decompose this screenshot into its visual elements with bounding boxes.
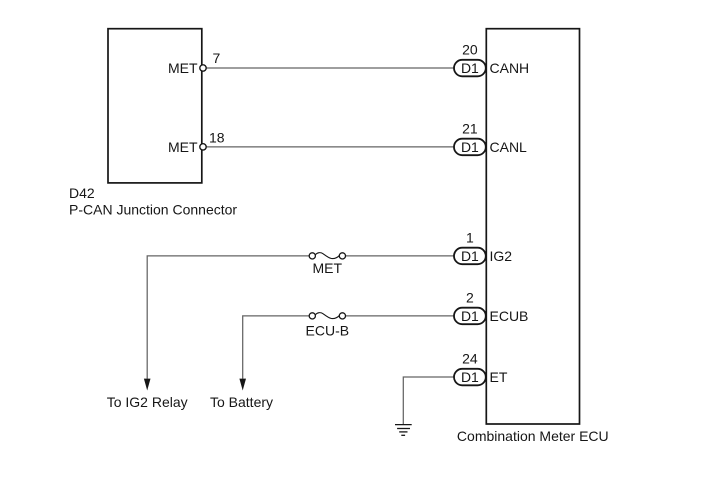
wire IG2 horizontal right of fuse	[345, 255, 454, 257]
svg-text:2: 2	[466, 290, 474, 306]
svg-text:To Battery: To Battery	[210, 394, 273, 410]
svg-text:20: 20	[462, 42, 478, 58]
fuse ECU-B	[309, 313, 345, 319]
wire ECUB left of fuse and down	[243, 316, 310, 379]
svg-text:MET: MET	[168, 139, 198, 155]
svg-text:7: 7	[213, 50, 221, 66]
svg-text:P-CAN Junction Connector: P-CAN Junction Connector	[69, 202, 237, 218]
svg-text:D1: D1	[461, 60, 479, 76]
arrow to IG2 relay	[144, 379, 151, 391]
ECU box (Combination Meter ECU)	[486, 29, 579, 424]
fuse MET	[309, 253, 345, 259]
svg-text:D1: D1	[461, 139, 479, 155]
oval terminal D1-2 ECUB	[454, 308, 486, 325]
wire CANL (pin 18 to D1-21)	[206, 146, 455, 148]
svg-text:D1: D1	[461, 248, 479, 264]
svg-text:Combination Meter ECU: Combination Meter ECU	[457, 428, 609, 444]
oval terminal D1-20 CANH	[454, 60, 486, 77]
svg-text:24: 24	[462, 351, 478, 367]
svg-text:D1: D1	[461, 369, 479, 385]
svg-text:18: 18	[209, 129, 225, 145]
svg-text:To IG2 Relay: To IG2 Relay	[107, 394, 188, 410]
arrow to Battery	[239, 379, 246, 391]
svg-text:MET: MET	[168, 60, 198, 76]
svg-text:ECU-B: ECU-B	[306, 323, 350, 339]
svg-text:D1: D1	[461, 308, 479, 324]
svg-text:ECUB: ECUB	[490, 308, 529, 324]
pin 18 terminal circle	[200, 144, 206, 150]
svg-text:IG2: IG2	[490, 248, 513, 264]
pin 7 terminal circle	[200, 65, 206, 71]
svg-text:CANH: CANH	[490, 60, 530, 76]
oval terminal D1-21 CANL	[454, 139, 486, 156]
svg-text:MET: MET	[313, 260, 343, 276]
svg-text:CANL: CANL	[490, 139, 528, 155]
connector D42 box	[108, 29, 202, 183]
wire IG2 left of fuse and down	[147, 256, 309, 379]
svg-text:ET: ET	[490, 369, 508, 385]
ground	[395, 425, 412, 436]
oval terminal D1-24 ET	[454, 369, 486, 386]
svg-text:D42: D42	[69, 185, 95, 201]
wire ET to ground	[403, 377, 454, 424]
svg-text:21: 21	[462, 121, 478, 137]
oval terminal D1-1 IG2	[454, 248, 486, 265]
svg-text:1: 1	[466, 230, 474, 246]
wire CANH (pin 7 to D1-20)	[206, 67, 455, 69]
wire ECUB horizontal right of fuse	[345, 315, 454, 317]
